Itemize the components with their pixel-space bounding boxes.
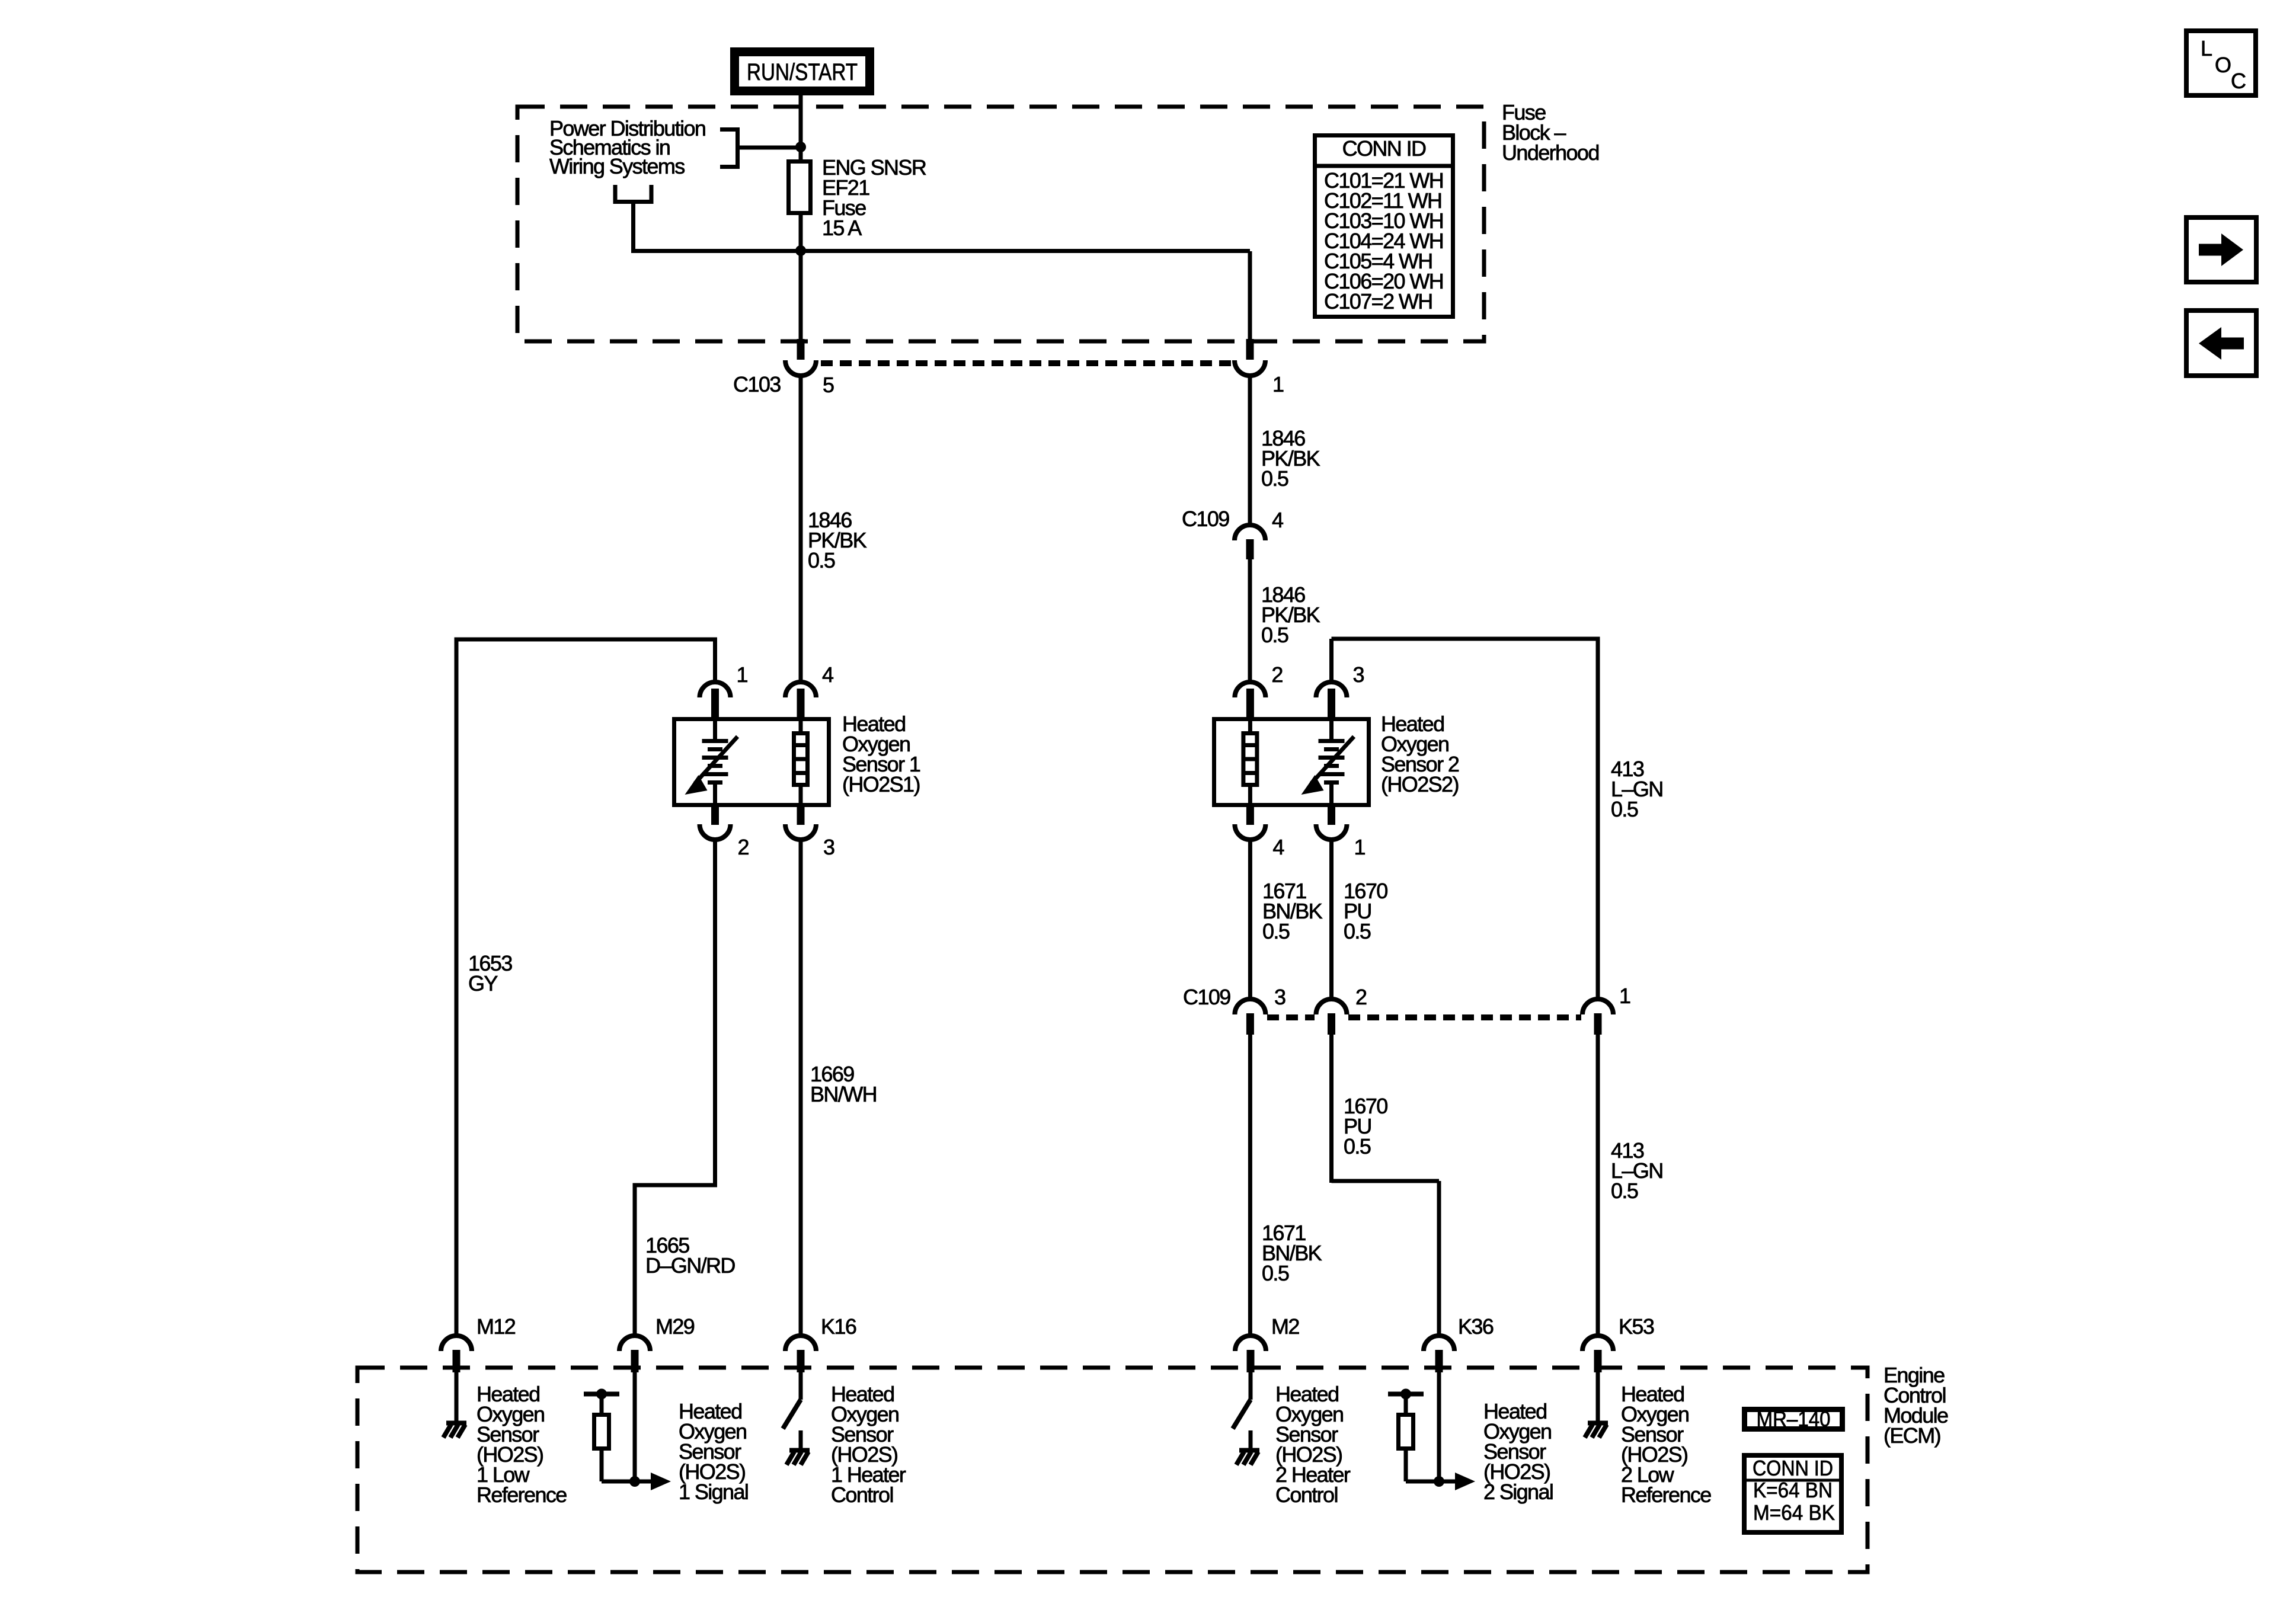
svg-text:M12: M12	[477, 1314, 516, 1339]
ECM connector M2 stub	[1247, 1350, 1255, 1372]
wire 1653 GY down to M12	[455, 639, 459, 1336]
HO2S 1 Signal resistor top bar	[584, 1392, 619, 1397]
M29 wire to junction	[633, 1371, 637, 1481]
fuse block exit pin 1	[1235, 360, 1265, 376]
K36 wire to junction	[1437, 1371, 1441, 1481]
Heated Oxygen Sensor 2 HO2S2 pin 4 connector (bottom)	[1235, 824, 1265, 840]
Heated Oxygen Sensor 2 HO2S2 heater element	[1243, 734, 1257, 785]
M2 heater control switch blade	[1233, 1400, 1251, 1429]
svg-text:HeatedOxygenSensor(HO2S)2 Sign: HeatedOxygenSensor(HO2S)2 Signal	[1483, 1399, 1553, 1504]
svg-text:M2: M2	[1271, 1314, 1299, 1339]
HO2S 2 Signal horizontal lead wire	[1406, 1480, 1439, 1484]
CONN ID table (fuse block underhood)	[1315, 136, 1453, 317]
svg-text:3: 3	[823, 835, 834, 859]
HO2S 1 Signal resistor bottom lead wire	[600, 1451, 604, 1481]
wire 1665 jog horizontal	[635, 1183, 717, 1188]
connector C103 pin 5 stub	[797, 339, 805, 360]
Heated Oxygen Sensor 1 HO2S1 heater element	[794, 734, 808, 785]
HO2S 1 Signal junction dot on bar	[596, 1389, 607, 1400]
wire 1670 PU down to K36	[1437, 1181, 1441, 1336]
fuse ENG SNSR EF21 15 A	[789, 162, 811, 213]
svg-text:L: L	[2201, 36, 2212, 60]
svg-text:1: 1	[1354, 835, 1366, 859]
HO2S 2 Signal resistor bottom lead wire	[1404, 1451, 1408, 1481]
Heated Oxygen Sensor 1 HO2S1 pin 2 stub	[711, 806, 719, 825]
wire 1670 PU C109-2 down	[1329, 1035, 1334, 1183]
svg-text:C103: C103	[733, 372, 781, 396]
Heated Oxygen Sensor 2 HO2S2 pin 4 stub	[1246, 806, 1254, 825]
connector C109 pin 3 stub	[1246, 1013, 1254, 1035]
wire 1653 GY horizontal	[455, 638, 718, 642]
connector C109 pin 1	[1582, 999, 1613, 1014]
Fuse Block - Underhood dashed box	[517, 107, 1484, 341]
K53 ground symbol	[1585, 1423, 1608, 1438]
svg-text:2: 2	[738, 835, 749, 859]
svg-text:4: 4	[1272, 835, 1284, 859]
Heated Oxygen Sensor 1 HO2S1 pin 2 connector (bottom)	[700, 824, 731, 840]
Heated Oxygen Sensor 2 HO2S2 sensing element (battery symbol)	[1319, 739, 1345, 785]
svg-text:1: 1	[1272, 372, 1284, 396]
ECM connector M29 arc	[619, 1336, 650, 1351]
wire 1671 BN/BK C109-3 to M2	[1248, 1035, 1252, 1336]
connector C103 pin 5	[785, 360, 816, 376]
fuse block exit pin 1 stub	[1246, 339, 1254, 360]
Heated Oxygen Sensor 2 HO2S2 box	[1214, 719, 1369, 805]
Heated Oxygen Sensor 1 HO2S1 pin 1 connector (top)	[700, 682, 731, 697]
connector C109 pin 4	[1235, 525, 1265, 540]
Heated Oxygen Sensor 1 HO2S1 box	[674, 719, 829, 805]
Heated Oxygen Sensor 2 HO2S2 pin 2 stub	[1246, 689, 1254, 719]
Heated Oxygen Sensor 1 HO2S1 pin 4 stub	[797, 689, 805, 719]
svg-text:3: 3	[1353, 662, 1364, 687]
svg-text:CONN ID: CONN ID	[1342, 136, 1426, 161]
next-page arrow box	[2186, 217, 2256, 282]
wire HO2S2 pin 3 up	[1329, 639, 1334, 683]
previous-page arrow box	[2186, 311, 2256, 376]
ECM connector K53 arc	[1582, 1336, 1613, 1351]
svg-text:C101=21 WHC102=11 WHC103=10 WH: C101=21 WHC102=11 WHC103=10 WHC104=24 WH…	[1324, 168, 1443, 313]
svg-text:4: 4	[1272, 508, 1283, 532]
Heated Oxygen Sensor 1 HO2S1 pin 3 connector (bottom)	[785, 824, 816, 840]
ECM connector M12 arc	[441, 1336, 472, 1351]
connector C109 pin 1 stub	[1594, 1013, 1602, 1035]
dashed connector line C103 row	[821, 360, 1233, 366]
Heated Oxygen Sensor 2 HO2S2 battery top lead wire	[1329, 717, 1334, 739]
wire fuse to connector C103-5	[799, 215, 803, 343]
wire 1665 D-GN/RD down to M29	[633, 1183, 637, 1336]
svg-text:HeatedOxygenSensor(HO2S)1 Sign: HeatedOxygenSensor(HO2S)1 Signal	[679, 1399, 748, 1504]
wire 1671 BN/BK HO2S2 pin 4 to C109-3	[1248, 838, 1252, 1000]
Heated Oxygen Sensor 2 HO2S2 arrow across element	[1312, 737, 1354, 783]
Heated Oxygen Sensor 1 HO2S1 battery top lead wire	[713, 717, 717, 739]
svg-text:3: 3	[1274, 985, 1285, 1009]
HO2S 1 Signal resistor top lead wire	[600, 1394, 604, 1413]
svg-text:CONN ID: CONN ID	[1753, 1456, 1833, 1480]
Heated Oxygen Sensor 1 HO2S1 pin 3 stub	[797, 806, 805, 825]
ECM connector M12 stub	[453, 1350, 461, 1372]
wire RUN/START to fuse EF21	[799, 95, 803, 159]
wire 1846 PK/BK exit-1 to C109-4	[1248, 373, 1252, 526]
HO2S 2 Signal resistor top lead wire	[1404, 1394, 1408, 1413]
svg-text:C: C	[2231, 69, 2246, 93]
svg-text:M=64 BK: M=64 BK	[1753, 1500, 1835, 1525]
svg-text:K53: K53	[1619, 1314, 1654, 1339]
Heated Oxygen Sensor 2 HO2S2 pin 1 stub	[1328, 806, 1335, 825]
M2 heater control switch fixed contact wire	[1249, 1430, 1253, 1450]
svg-text:M29: M29	[655, 1314, 695, 1339]
K53 ground wire	[1596, 1371, 1600, 1423]
connector C109 pin 2 stub	[1328, 1013, 1335, 1035]
wire 413 L-GN horizontal	[1332, 637, 1598, 641]
HO2S 2 Signal pull resistor	[1399, 1415, 1414, 1449]
Heated Oxygen Sensor 1 HO2S1 pin 4 connector (top)	[785, 682, 816, 697]
svg-text:MR–140: MR–140	[1757, 1407, 1831, 1431]
connector C109 pin 2	[1316, 999, 1347, 1014]
Heated Oxygen Sensor 2 HO2S2 heater top lead wire	[1248, 717, 1252, 733]
connector C109 pin 4 stub	[1246, 539, 1254, 559]
Engine Control Module dashed box	[357, 1368, 1868, 1572]
M2 heater control wire to switch	[1249, 1371, 1253, 1400]
wire 413 L-GN C109-1 to K53	[1596, 1035, 1600, 1336]
svg-text:K16: K16	[821, 1314, 856, 1339]
RUN/START power feed box	[735, 52, 870, 91]
Heated Oxygen Sensor 2 HO2S2 pin 1 connector (bottom)	[1316, 824, 1347, 840]
svg-text:5: 5	[823, 373, 834, 397]
svg-text:RUN/START: RUN/START	[747, 59, 858, 85]
connector C109 pin 3	[1235, 999, 1265, 1014]
HO2S 1 Signal junction dot	[629, 1476, 640, 1487]
wire 1670 PU jog horizontal	[1332, 1179, 1440, 1183]
svg-text:C109: C109	[1182, 507, 1229, 531]
svg-text:1: 1	[1619, 984, 1630, 1008]
Heated Oxygen Sensor 2 HO2S2 heater bottom lead wire	[1248, 785, 1252, 807]
HO2S 1 Signal arrow head	[651, 1473, 671, 1490]
HO2S 2 Signal junction dot	[1434, 1476, 1444, 1487]
Heated Oxygen Sensor 1 HO2S1 arrow across element	[695, 737, 738, 783]
Heated Oxygen Sensor 2 HO2S2 battery bottom lead wire	[1329, 785, 1334, 807]
svg-text:K=64 BN: K=64 BN	[1753, 1478, 1833, 1502]
ECM connector K36 stub	[1435, 1350, 1443, 1372]
junction node below fuse	[795, 245, 806, 256]
wire HO2S1 pin 1 up	[713, 639, 717, 683]
wire 1846 PK/BK C109-4 to HO2S2 pin 2	[1248, 559, 1252, 683]
svg-text:2: 2	[1355, 985, 1367, 1009]
Heated Oxygen Sensor 2 HO2S2 pin 2 connector (top)	[1235, 682, 1265, 697]
svg-text:C109: C109	[1183, 985, 1230, 1009]
svg-text:1: 1	[737, 662, 748, 687]
wire 1846 PK/BK C103-5 to HO2S1 pin 4	[799, 373, 803, 683]
dashed connector line C109 row 2	[1267, 1014, 1315, 1020]
K16 heater control wire to switch	[799, 1371, 803, 1400]
HO2S 2 Signal arrow head	[1455, 1473, 1475, 1490]
Heated Oxygen Sensor 2 HO2S2 pin 3 stub	[1328, 689, 1335, 719]
ECM connector M29 stub	[631, 1350, 639, 1372]
ECM connector K36 arc	[1424, 1336, 1454, 1351]
Heated Oxygen Sensor 2 HO2S2 pin 3 connector (top)	[1316, 682, 1347, 697]
M12 ground symbol	[443, 1423, 466, 1438]
svg-text:K36: K36	[1458, 1314, 1494, 1339]
wire 413 L-GN down to C109-1	[1596, 637, 1600, 1001]
ECM connector M2 arc	[1235, 1336, 1266, 1351]
wire branch to fuse block exit 1	[1248, 251, 1252, 343]
svg-text:4: 4	[822, 662, 833, 687]
Heated Oxygen Sensor 1 HO2S1 battery bottom lead wire	[713, 785, 717, 807]
Heated Oxygen Sensor 1 HO2S1 heater bottom lead wire	[799, 785, 803, 807]
HO2S 1 Signal pull resistor	[594, 1415, 609, 1449]
power distribution reference bracket (right of text)	[720, 130, 801, 167]
svg-text:EngineControlModule(ECM): EngineControlModule(ECM)	[1884, 1363, 1948, 1448]
wire HO2S1 pin 2 down	[713, 838, 717, 1185]
M12 ground wire	[455, 1371, 459, 1423]
power distribution reference bracket (below text)	[615, 185, 1250, 251]
svg-text:O: O	[2215, 53, 2231, 77]
HO2S 1 Signal arrow shaft wire	[635, 1480, 652, 1484]
MR-140 box	[1745, 1410, 1843, 1429]
ECM connector K16 stub	[797, 1350, 805, 1372]
K16 heater control switch fixed contact wire	[799, 1430, 803, 1450]
wire 1669 BN/WH HO2S1 pin 3 to K16	[799, 838, 803, 1336]
M2 heater control ground	[1236, 1451, 1259, 1465]
ECM CONN ID box	[1744, 1455, 1841, 1532]
ECM connector K53 stub	[1594, 1350, 1602, 1372]
K16 heater control switch blade	[783, 1400, 801, 1429]
LOC box	[2186, 31, 2256, 95]
Heated Oxygen Sensor 1 HO2S1 sensing element (battery symbol)	[702, 739, 728, 785]
junction node above fuse	[795, 142, 806, 152]
ECM connector K16 arc	[785, 1336, 816, 1351]
wire 1670 PU HO2S2 pin 1 to C109-2	[1329, 838, 1334, 1000]
K16 heater control ground	[786, 1451, 810, 1465]
HO2S 2 Signal arrow shaft wire	[1439, 1480, 1456, 1484]
Heated Oxygen Sensor 1 HO2S1 pin 1 stub	[711, 689, 719, 719]
svg-text:2: 2	[1271, 662, 1283, 687]
HO2S 2 Signal junction dot on bar	[1400, 1389, 1411, 1400]
Heated Oxygen Sensor 1 HO2S1 heater top lead wire	[799, 717, 803, 733]
HO2S 2 Signal resistor top bar	[1388, 1392, 1424, 1397]
HO2S 1 Signal horizontal lead wire	[602, 1480, 635, 1484]
